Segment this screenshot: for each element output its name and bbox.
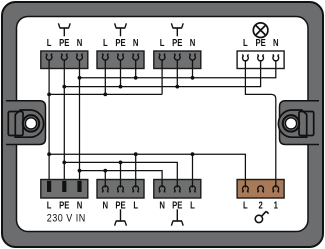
svg-text:PE: PE <box>172 37 182 48</box>
svg-text:PE: PE <box>172 200 182 211</box>
svg-text:PE: PE <box>115 37 125 48</box>
svg-text:230 V IN: 230 V IN <box>47 213 86 225</box>
svg-text:N: N <box>190 37 196 48</box>
svg-text:1: 1 <box>274 200 278 211</box>
svg-text:N: N <box>273 37 279 48</box>
svg-text:PE: PE <box>59 200 69 211</box>
svg-text:L: L <box>47 37 52 48</box>
svg-text:PE: PE <box>255 37 265 48</box>
svg-text:N: N <box>133 37 139 48</box>
svg-text:PE: PE <box>59 37 69 48</box>
svg-text:L: L <box>243 200 248 211</box>
svg-text:L: L <box>190 200 195 211</box>
svg-text:L: L <box>243 37 248 48</box>
svg-text:L: L <box>160 37 165 48</box>
svg-text:L: L <box>47 200 52 211</box>
svg-text:L: L <box>133 200 138 211</box>
svg-text:N: N <box>103 200 109 211</box>
svg-text:2: 2 <box>258 200 262 211</box>
svg-text:N: N <box>159 200 165 211</box>
svg-text:PE: PE <box>115 200 125 211</box>
svg-text:N: N <box>77 37 83 48</box>
svg-text:L: L <box>103 37 108 48</box>
svg-text:N: N <box>77 200 83 211</box>
